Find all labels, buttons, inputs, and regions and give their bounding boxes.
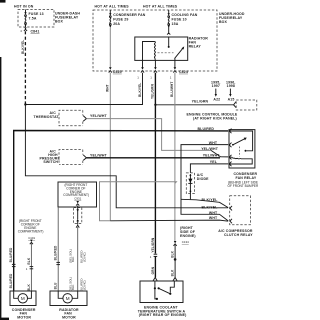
svg-text:BOX: BOX bbox=[219, 20, 228, 24]
label BLK (DEL SOL) vertical lower bbox=[68, 277, 75, 291]
label A/C DIODE bbox=[197, 173, 209, 181]
svg-text:BLK/YEL: BLK/YEL bbox=[138, 83, 142, 97]
label BLU/RED (CIVIC) vertical lower bbox=[80, 278, 87, 291]
condenser fan relay internals bbox=[229, 131, 252, 164]
svg-text:BLU/WHT: BLU/WHT bbox=[170, 82, 174, 97]
svg-text:C841: C841 bbox=[31, 30, 40, 34]
svg-text:BLK: BLK bbox=[170, 269, 174, 276]
svg-text:A15: A15 bbox=[228, 98, 235, 102]
wire WHT condenser relay pin2 routing bbox=[181, 145, 228, 221]
connector C825 on condenser fan fuse wire bbox=[109, 28, 112, 73]
condenser fan relay box bbox=[229, 130, 255, 168]
wire YEL diode to condenser relay pin4 bbox=[190, 164, 228, 173]
wire gray tap pin C to row4 elbow bbox=[100, 182, 177, 221]
relay K1 actuator dashed link bbox=[158, 52, 174, 54]
connector flare into ECT switch pin1 bbox=[153, 278, 157, 282]
svg-text:(DEL SOL): (DEL SOL) bbox=[68, 277, 72, 291]
svg-text:YEL: YEL bbox=[210, 160, 218, 164]
wire WHT row4 to clutch relay bbox=[110, 220, 228, 221]
A/C diode dashed box bbox=[186, 173, 194, 194]
svg-text:BLK: BLK bbox=[27, 284, 31, 291]
svg-text:YEL/GRN: YEL/GRN bbox=[192, 100, 209, 104]
svg-text:YEL/GRN: YEL/GRN bbox=[151, 84, 155, 99]
wire BLU/WHT relay pin C down (gray) bbox=[174, 73, 176, 241]
svg-text:ENGINE): ENGINE) bbox=[180, 234, 196, 238]
node junction dot at BLK/YEL tee bbox=[24, 103, 26, 105]
scan border left edge bbox=[0, 0, 9, 320]
svg-text:CONDENSER FAN: CONDENSER FAN bbox=[113, 13, 146, 17]
label (RIGHT FRONT CORNER OF ENGINE COMPARTMENT) floating left bbox=[18, 219, 44, 234]
svg-text:CLUTCH RELAY: CLUTCH RELAY bbox=[224, 233, 253, 237]
svg-text:(AT RIGHT KICK PANEL): (AT RIGHT KICK PANEL) bbox=[193, 117, 237, 121]
A/C diode symbol bbox=[188, 174, 192, 193]
connector arrow inside compartment box bbox=[76, 201, 79, 206]
svg-text:BLU/RED: BLU/RED bbox=[54, 245, 58, 260]
under-hood fuse/relay box bbox=[93, 10, 217, 71]
svg-text:(CIVIC): (CIVIC) bbox=[82, 252, 86, 262]
relay K1 switch arm bbox=[175, 46, 185, 60]
A/C high pressure switch label bbox=[40, 150, 61, 165]
fuse COOLING FAN FUSE 10 15A symbol bbox=[168, 10, 170, 28]
svg-text:C134: C134 bbox=[182, 240, 189, 244]
svg-text:BLK/YEL: BLK/YEL bbox=[202, 198, 219, 202]
svg-text:COOLING FAN: COOLING FAN bbox=[172, 13, 198, 17]
svg-text:M: M bbox=[21, 296, 25, 301]
svg-text:HOT AT ALL TIMES: HOT AT ALL TIMES bbox=[95, 4, 130, 8]
svg-text:BLK/YEL: BLK/YEL bbox=[202, 205, 219, 209]
svg-text:HOT IN ON: HOT IN ON bbox=[14, 5, 34, 9]
wire WHT condenser fuse down to corner bbox=[109, 73, 111, 221]
relay K1 fixed contact bbox=[168, 37, 170, 48]
radiator fan motor box bbox=[50, 291, 87, 306]
fuse F13 7.5A symbol bbox=[24, 10, 26, 28]
relay K1 coil bbox=[143, 42, 156, 61]
A/C thermostat dashed box bbox=[59, 110, 83, 126]
label 1995 1997 ECM pin year bbox=[211, 80, 221, 96]
A/C thermostat output pin bracket bbox=[83, 116, 86, 122]
wire BLK condenser fan motor right pin bbox=[30, 244, 32, 291]
svg-text:WHT: WHT bbox=[106, 84, 110, 92]
label ENGINE CONTROL MODULE (AT RIGHT KICK PANEL) bbox=[187, 113, 238, 121]
wire BLK/YEL relay pin A down to corner junction bbox=[25, 73, 142, 105]
wire YEL/WHT thermostat to condenser relay routing bbox=[86, 119, 211, 151]
in-line connector capsule C710 bbox=[74, 206, 82, 228]
svg-text:BOX: BOX bbox=[55, 19, 64, 23]
A/C high pressure switch output pin bracket bbox=[83, 155, 86, 161]
svg-text:DIODE: DIODE bbox=[197, 177, 209, 181]
svg-text:A22: A22 bbox=[213, 98, 220, 102]
svg-text:YEL/GRN: YEL/GRN bbox=[151, 237, 155, 252]
svg-text:WHT: WHT bbox=[209, 141, 218, 145]
condenser fan motor M1 bbox=[14, 291, 32, 303]
ECM connector bracket bbox=[234, 102, 236, 108]
radiator fan relay box bbox=[135, 37, 188, 60]
under-dash fuse/relay box bbox=[18, 10, 54, 28]
label FUSE 13 7.5A bbox=[29, 12, 44, 20]
wire BLK/YEL dashed from fuse 13 down bbox=[24, 31, 26, 104]
wire GRN sensor lower segment bbox=[154, 256, 156, 277]
wire YEL/GRN relay pin B down bbox=[154, 73, 156, 254]
label BLU/RED (CIVIC) vertical bbox=[80, 250, 87, 263]
svg-text:BLU/RED: BLU/RED bbox=[9, 273, 13, 288]
wire YEL/WHT pressure switch to condenser relay pin3 bbox=[86, 157, 220, 159]
A/C thermostat label bbox=[34, 111, 60, 119]
connector YEL/GRN inline on sensor wire bbox=[150, 254, 157, 259]
node YEL/GRN junction to ECM bbox=[154, 104, 156, 106]
label ENGINE COOLANT TEMPERATURE SWITCH A (RIGHT REAR OF ENGINE) bbox=[138, 306, 187, 318]
svg-text:YEL/WHT: YEL/WHT bbox=[90, 114, 108, 118]
label BLK (DEL SOL) vertical bbox=[68, 249, 75, 263]
wire BLU radiator fan motor left pin from compartment box bbox=[57, 207, 59, 291]
label UNDER-DASH FUSE/RELAY BOX bbox=[55, 12, 80, 24]
svg-text:FUSE 29: FUSE 29 bbox=[113, 18, 128, 22]
svg-text:7.5A: 7.5A bbox=[29, 17, 37, 21]
label (RIGHT SIDE OF ENGINE) bbox=[180, 226, 196, 238]
engine coolant temperature switch box bbox=[140, 281, 183, 303]
A/C high pressure switch dashed box bbox=[59, 150, 83, 165]
wire YEL/GRN to ECM bbox=[155, 104, 233, 106]
connector inline on BLU/RED wire bbox=[12, 264, 16, 266]
node splice dot ECT ground wire bbox=[174, 258, 177, 261]
svg-text:BLU: BLU bbox=[54, 282, 58, 289]
svg-text:THERMOSTAT: THERMOSTAT bbox=[34, 115, 60, 119]
svg-text:C824: C824 bbox=[179, 70, 188, 74]
svg-text:M: M bbox=[66, 296, 70, 301]
svg-text:YEL/WHT: YEL/WHT bbox=[90, 153, 108, 157]
svg-text:YEL/WHT: YEL/WHT bbox=[201, 147, 219, 151]
svg-text:C931: C931 bbox=[74, 196, 81, 200]
condenser fan relay pin brackets bbox=[229, 129, 231, 167]
connector C841 under-dash box exit bbox=[20, 27, 27, 33]
connector arrow on BLK wire bbox=[30, 240, 33, 245]
svg-text:HOT AT ALL TIMES: HOT AT ALL TIMES bbox=[143, 4, 178, 8]
wire BLK/YEL row1 to clutch relay pin bbox=[181, 199, 228, 207]
svg-text:15A: 15A bbox=[172, 22, 179, 26]
connector inline on BLK wire bbox=[26, 267, 33, 271]
svg-text:WHT: WHT bbox=[209, 216, 218, 220]
svg-text:RELAY: RELAY bbox=[189, 45, 202, 49]
A/C compressor clutch relay dashed box bbox=[230, 196, 251, 225]
svg-text:(RIGHT REAR OF ENGINE): (RIGHT REAR OF ENGINE) bbox=[139, 313, 187, 317]
svg-text:BLK/YEL: BLK/YEL bbox=[21, 40, 25, 54]
label RADIATOR FAN RELAY bbox=[189, 37, 209, 49]
svg-text:WHT: WHT bbox=[209, 211, 218, 215]
svg-text:COMPARTMENT): COMPARTMENT) bbox=[18, 230, 44, 234]
engine compartment enclosure box (in-line connector) bbox=[58, 182, 97, 207]
svg-text:(CIVIC): (CIVIC) bbox=[82, 280, 86, 290]
wire YEL/WHT diagonal merge into pin3 bbox=[211, 150, 228, 157]
svg-text:SWITCH: SWITCH bbox=[43, 160, 58, 164]
svg-text:OF FRONT BUMPER): OF FRONT BUMPER) bbox=[228, 184, 259, 188]
svg-text:C101: C101 bbox=[28, 236, 35, 240]
svg-text:BLK: BLK bbox=[170, 250, 174, 257]
pin number labels 1 1 1 bbox=[137, 76, 171, 80]
label COOLING FAN FUSE 10 15A bbox=[172, 13, 198, 26]
under-hood box bottom connectors for relay pins bbox=[141, 60, 177, 72]
svg-text:1997: 1997 bbox=[212, 84, 220, 88]
svg-text:1998: 1998 bbox=[227, 84, 235, 88]
svg-text:BLU/RED: BLU/RED bbox=[198, 127, 215, 131]
wire cooling fan fuse to relay with arrow bbox=[167, 26, 170, 35]
label RADIATOR FAN MOTOR bbox=[59, 308, 79, 320]
svg-text:MOTOR: MOTOR bbox=[62, 315, 76, 319]
fuse CONDENSER FAN FUSE 29 20A symbol bbox=[109, 10, 111, 28]
svg-text:BLU/RED: BLU/RED bbox=[9, 247, 13, 262]
label CONDENSER FAN FUSE 29 20A bbox=[113, 13, 146, 26]
svg-text:YEL/WHT: YEL/WHT bbox=[203, 153, 221, 157]
wire BLU/RED corner to condenser relay pin1 bbox=[14, 131, 229, 292]
wire BLK/YEL junction down left elbow bbox=[25, 105, 228, 208]
clutch relay pin brackets bbox=[230, 206, 232, 223]
svg-text:FUSE 13: FUSE 13 bbox=[29, 12, 44, 16]
wire diode bottom to junction bbox=[189, 193, 191, 200]
ECM engine control module dashed box bbox=[236, 100, 257, 110]
label A/C COMPRESSOR CLUTCH RELAY bbox=[218, 229, 253, 237]
radiator fan motor M2 bbox=[58, 291, 77, 303]
svg-text:20A: 20A bbox=[113, 22, 120, 26]
label (RIGHT FRONT CORNER OF ENGINE COMPARTMENT) C931 bbox=[63, 183, 89, 200]
label 1996 1998 ECM pin year bbox=[226, 80, 236, 96]
svg-text:BLK: BLK bbox=[27, 257, 31, 264]
svg-text:GRN: GRN bbox=[151, 266, 155, 274]
svg-text:(DEL SOL): (DEL SOL) bbox=[68, 249, 72, 263]
label CONDENSER FAN RELAY (BEHIND LEFT SIDE OF FRONT BUMPER) bbox=[228, 172, 260, 188]
svg-text:C825: C825 bbox=[113, 70, 122, 74]
connector on ECT sensor gray wire bbox=[174, 241, 177, 246]
connector inline on BLU wire bbox=[56, 262, 60, 264]
svg-text:FUSE 10: FUSE 10 bbox=[172, 18, 187, 22]
wire ECT switch ground segment bbox=[174, 245, 176, 277]
label UNDER-HOOD FUSE/RELAY BOX bbox=[219, 12, 245, 24]
label CONDENSER FAN MOTOR bbox=[12, 308, 36, 320]
ECT switch A internals bbox=[154, 281, 175, 300]
connector flare into ECT switch pin2 bbox=[173, 278, 177, 282]
wire radiator fan motor right pin bbox=[77, 227, 79, 291]
svg-text:MOTOR: MOTOR bbox=[17, 315, 31, 319]
condenser fan motor box bbox=[10, 291, 36, 306]
